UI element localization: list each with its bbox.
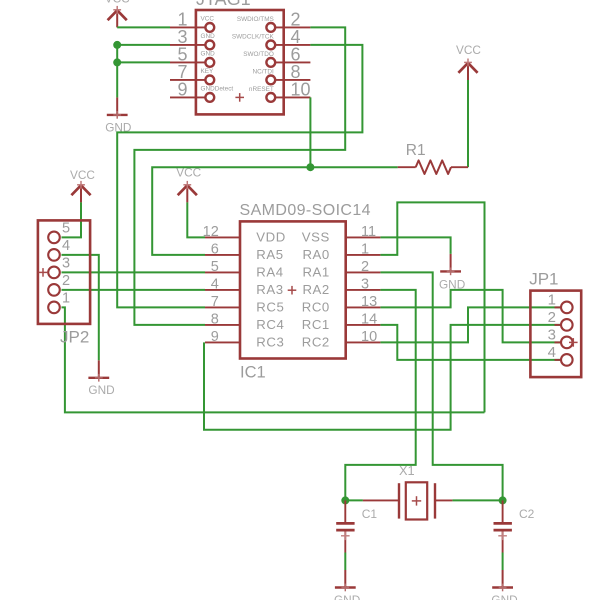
- JTAG1 pin 10 (nRESET): [249, 80, 311, 102]
- JTAG1 origin cross: [235, 93, 244, 102]
- IC1 pin 13 (RC0): [302, 294, 381, 315]
- svg-text:SWDCLK/TCK: SWDCLK/TCK: [232, 34, 275, 41]
- IC1 pin 6 (RA5): [205, 241, 284, 262]
- svg-text:nRESET: nRESET: [249, 86, 274, 93]
- svg-text:RC2: RC2: [302, 335, 330, 350]
- svg-text:RA0: RA0: [302, 247, 329, 262]
- resistor R1: [398, 142, 468, 174]
- svg-text:RC1: RC1: [302, 317, 330, 332]
- wire nRESET: JTAG pin10 down to R1 net: [309, 97, 311, 167]
- connector JTAG1: [196, 0, 284, 114]
- ground symbol GND JTAG (pins 3/5): [105, 97, 131, 134]
- ground symbol GND JP2 pin4: [88, 360, 114, 397]
- wire VCC to JP2 pin5: [62, 202, 82, 237]
- svg-text:5: 5: [62, 220, 70, 236]
- wire SWDCLK/TCK: JTAG pin4 to IC1 RC5: [117, 45, 362, 308]
- svg-text:SWDIO/TMS: SWDIO/TMS: [237, 16, 274, 23]
- svg-text:C1: C1: [362, 507, 378, 521]
- wire R1 to VCC: [467, 80, 469, 167]
- capacitor C2: [494, 500, 535, 552]
- power symbol VCC IC1 VDD: [176, 165, 201, 202]
- JP2 pin 3: [48, 255, 70, 278]
- svg-text:VCC: VCC: [70, 168, 95, 182]
- power symbol VCC JP2 pin5: [70, 168, 95, 202]
- junction GND rail / pin3: [113, 41, 121, 49]
- svg-text:C2: C2: [519, 507, 535, 521]
- wire JP2 pin3 to IC1 RA4: [62, 271, 206, 273]
- JTAG1 pin 1 (VCC): [170, 10, 214, 32]
- wire IC1 RC0 to JP1 pin3: [380, 290, 560, 343]
- svg-text:2: 2: [62, 273, 70, 289]
- wire VCC to IC1 VDD: [187, 202, 205, 237]
- svg-text:RA3: RA3: [256, 282, 283, 297]
- wire GND rail vertical: [116, 45, 118, 98]
- svg-text:GND: GND: [491, 593, 517, 600]
- ground symbol GND C2: [491, 570, 517, 600]
- svg-text:RC5: RC5: [256, 300, 284, 315]
- svg-text:10: 10: [361, 329, 377, 345]
- JTAG1 pin 9 (GNDDetect): [170, 80, 233, 102]
- wire JTAG pin3 to GND rail: [117, 44, 170, 46]
- wire IC1 RA0 to JP2 pin1 net: [380, 202, 484, 412]
- svg-text:3: 3: [62, 255, 70, 271]
- wire JP2 pin4 to GND: [62, 255, 99, 360]
- connector JP1: [529, 270, 581, 378]
- wire JTAG pin5 to GND rail: [117, 61, 170, 63]
- svg-text:GND: GND: [201, 33, 216, 40]
- JP1 pin 2: [548, 309, 573, 331]
- svg-text:VDD: VDD: [256, 230, 286, 245]
- wire IC1 RC2 to JP1 pin1: [380, 307, 560, 342]
- IC1 pin 1 (RA0): [302, 241, 380, 262]
- ground symbol GND C1: [334, 570, 360, 600]
- svg-text:9: 9: [177, 80, 187, 100]
- JTAG1 pin 5 (GND): [170, 45, 215, 67]
- IC1 pin 12 (VDD): [203, 224, 286, 245]
- svg-text:12: 12: [203, 224, 219, 240]
- JP2 pin 2: [48, 273, 70, 296]
- JP2 pin 4: [48, 238, 70, 261]
- JTAG1 pin 6 (SWO/TDO): [243, 45, 310, 67]
- svg-text:JTAG1: JTAG1: [196, 0, 251, 9]
- svg-text:VCC: VCC: [201, 16, 215, 23]
- junction GND rail / pin5: [113, 58, 121, 66]
- svg-text:2: 2: [361, 259, 369, 275]
- svg-text:VCC: VCC: [456, 43, 481, 57]
- wire IC1 RA2 to crystal left node: [345, 290, 415, 501]
- JTAG1 pin 7 (KEY): [170, 62, 214, 84]
- ground symbol GND IC1 VSS: [439, 254, 465, 292]
- svg-text:2: 2: [548, 309, 556, 326]
- svg-text:7: 7: [211, 294, 219, 310]
- wire JP2 pin1 to RA0 net: [62, 307, 485, 412]
- capacitor C1: [336, 500, 377, 552]
- IC1 pin 4 (RA3): [205, 276, 284, 297]
- junction crystal right node / C2: [499, 496, 507, 504]
- wire IC1 RA1 to crystal right node: [380, 272, 502, 500]
- JTAG1 pin 4 (SWDCLK/TCK): [232, 27, 311, 49]
- svg-text:RA1: RA1: [302, 265, 329, 280]
- JP2 pin 5: [48, 220, 70, 243]
- JTAG1 pin 2 (SWDIO/TMS): [237, 10, 311, 32]
- wire IC1 VSS to GND: [380, 237, 450, 254]
- JP2 origin cross: [39, 268, 48, 277]
- svg-text:JP2: JP2: [60, 328, 89, 347]
- IC1 pin 11 (VSS): [302, 224, 381, 245]
- svg-text:GND: GND: [334, 593, 360, 600]
- svg-text:8: 8: [211, 311, 219, 327]
- svg-text:R1: R1: [406, 142, 426, 159]
- connector JP2: [38, 220, 90, 346]
- JP1 pin 3: [548, 326, 573, 348]
- svg-text:5: 5: [211, 259, 219, 275]
- wire C1 to GND: [344, 553, 346, 571]
- svg-text:14: 14: [361, 311, 377, 327]
- junction nRESET net: [306, 163, 314, 171]
- JP1 pin 4: [548, 344, 573, 366]
- svg-text:11: 11: [361, 224, 376, 240]
- JTAG1 pin 3 (GND): [170, 27, 215, 49]
- IC1 pin 10 (RC2): [302, 329, 381, 350]
- svg-text:3: 3: [361, 276, 369, 292]
- wire IC1 RC1 to JP1 pin4: [380, 325, 560, 360]
- svg-text:1: 1: [548, 291, 556, 308]
- wire nRESET net: R1 to IC1 RA5: [152, 167, 398, 255]
- IC1 pin 5 (RA4): [205, 259, 284, 280]
- svg-text:VSS: VSS: [302, 230, 330, 245]
- svg-text:GND: GND: [88, 383, 114, 397]
- crystal X1: [363, 463, 453, 520]
- svg-text:SWO/TDO: SWO/TDO: [243, 51, 274, 58]
- svg-text:SAMD09-SOIC14: SAMD09-SOIC14: [240, 202, 371, 219]
- wire SWDIO/TMS: JTAG pin2 to IC1 RC4: [134, 27, 345, 325]
- JTAG1 pin 8 (NC/TDI): [252, 62, 310, 84]
- svg-text:RC0: RC0: [302, 300, 330, 315]
- svg-text:6: 6: [211, 241, 219, 257]
- svg-text:GND: GND: [201, 51, 216, 58]
- wire IC1 RC3 to JP1 pin2: [204, 325, 561, 430]
- svg-text:4: 4: [211, 276, 219, 292]
- svg-text:VCC: VCC: [105, 0, 130, 6]
- IC1 pin 14 (RC1): [302, 311, 381, 332]
- wire crystal left node: [345, 499, 363, 501]
- JP1 pin 1: [548, 291, 573, 313]
- power symbol VCC R1 pull-up: [456, 43, 481, 80]
- svg-text:3: 3: [548, 326, 556, 343]
- svg-text:9: 9: [211, 329, 219, 345]
- wire C2 to GND: [502, 553, 504, 571]
- IC1 origin cross: [288, 286, 297, 295]
- IC1 pin 7 (RC5): [205, 294, 284, 315]
- wire JP2 pin2 to IC1 RA3: [62, 289, 206, 291]
- svg-text:X1: X1: [399, 463, 415, 478]
- power symbol VCC top-left (JTAG pin1): [105, 0, 130, 27]
- svg-text:RA4: RA4: [256, 265, 283, 280]
- junction crystal left node / C1: [341, 496, 349, 504]
- svg-text:10: 10: [291, 80, 311, 100]
- svg-text:1: 1: [361, 241, 369, 257]
- svg-text:JP1: JP1: [529, 270, 558, 289]
- svg-text:13: 13: [361, 294, 377, 310]
- JP2 pin 1: [48, 290, 70, 313]
- wire VCC to JTAG pin1: [117, 26, 170, 28]
- svg-text:NC/TDI: NC/TDI: [252, 69, 274, 76]
- svg-text:4: 4: [62, 238, 70, 254]
- IC1 pin 8 (RC4): [205, 311, 284, 332]
- IC1 pin 3 (RA2): [302, 276, 380, 297]
- svg-text:KEY: KEY: [201, 68, 215, 75]
- IC U IC1 SAMD09-SOIC14: [240, 202, 371, 382]
- svg-text:GNDDetect: GNDDetect: [201, 86, 234, 93]
- svg-text:RA5: RA5: [256, 247, 283, 262]
- svg-text:4: 4: [548, 344, 556, 361]
- svg-text:RA2: RA2: [302, 282, 329, 297]
- IC1 pin 9 (RC3): [205, 329, 284, 350]
- wire crystal right node: [452, 499, 502, 501]
- JP1 origin cross: [569, 338, 578, 347]
- svg-text:RC3: RC3: [256, 335, 284, 350]
- svg-text:RC4: RC4: [256, 317, 284, 332]
- svg-text:1: 1: [62, 290, 70, 306]
- IC1 pin 2 (RA1): [302, 259, 380, 280]
- svg-text:IC1: IC1: [240, 364, 266, 382]
